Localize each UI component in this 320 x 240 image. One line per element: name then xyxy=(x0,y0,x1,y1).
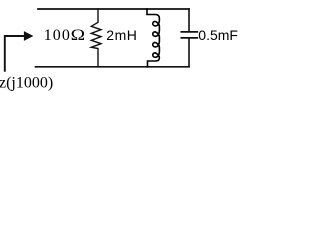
svg-text:z(j1000): z(j1000) xyxy=(0,74,53,91)
svg-text:Ω: Ω xyxy=(71,25,85,43)
svg-text:0.5mF: 0.5mF xyxy=(198,27,238,43)
svg-text:2mH: 2mH xyxy=(106,27,137,43)
svg-text:100: 100 xyxy=(44,27,71,44)
